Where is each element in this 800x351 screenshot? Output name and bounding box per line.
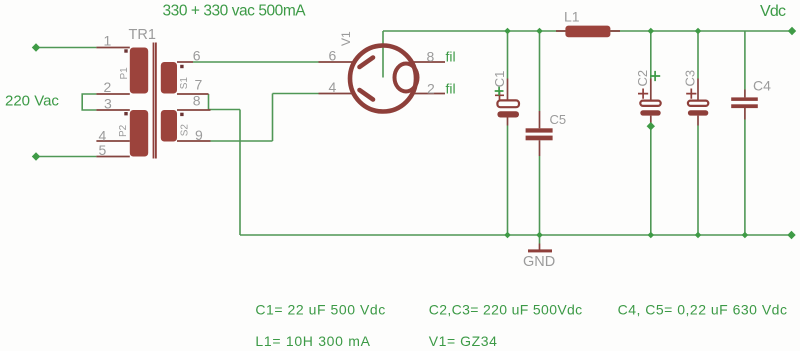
L1 pin stubs	[556, 30, 620, 32]
tube pin 2 stub (fil)	[412, 93, 446, 95]
rectifier tube V1	[319, 31, 456, 112]
junction C3 top	[695, 28, 702, 35]
C1 polarity plus (red)	[495, 91, 504, 100]
wire C2 bottom drop	[650, 126, 652, 236]
C2 plate bottom (filled)	[640, 110, 660, 115]
pin 1 stub	[96, 47, 129, 49]
svg-text:C4: C4	[753, 78, 771, 94]
tube pin 4 stub	[319, 93, 356, 95]
svg-text:V1= GZ34: V1= GZ34	[429, 333, 498, 349]
C3 bottom pin stub	[697, 116, 699, 126]
C1 top pin stub	[507, 79, 509, 101]
wire GND stub	[539, 235, 541, 244]
C1 plate bottom (filled)	[497, 111, 519, 117]
svg-text:V1: V1	[339, 31, 353, 46]
port bottom right	[787, 231, 795, 239]
svg-text:C2: C2	[635, 70, 650, 87]
svg-text:330 + 330 vac 500mA: 330 + 330 vac 500mA	[163, 3, 307, 20]
transformer TR1	[96, 27, 210, 159]
junction C1 top	[504, 28, 511, 35]
wire net pin9 horizontal	[211, 140, 273, 142]
tube anode plate lower	[360, 90, 374, 100]
wire net pin6 to tube anode	[193, 61, 319, 63]
junction below C2	[647, 122, 655, 130]
junction GND	[536, 232, 543, 239]
C4 plate bottom	[731, 104, 758, 108]
pin 8 stub	[177, 109, 211, 111]
wire bottom ground bus	[240, 234, 792, 236]
wire C3 bottom drop	[697, 126, 699, 236]
wire C4 top drop	[744, 31, 746, 90]
port 220Vac bottom	[32, 152, 40, 160]
wire C5 bottom drop	[539, 156, 541, 235]
wire top bus Vdc	[383, 30, 792, 32]
junction C2 bottom	[648, 232, 655, 239]
svg-text:S2: S2	[179, 124, 190, 137]
junction / port diamonds	[32, 27, 796, 239]
wire C3 top drop	[697, 31, 699, 79]
C5 plate bottom	[526, 136, 553, 141]
C2 plate top (hollow)	[640, 101, 660, 106]
svg-text:7: 7	[195, 77, 203, 93]
ground symbol GND	[523, 244, 555, 271]
svg-text:5: 5	[99, 142, 107, 158]
svg-text:fil: fil	[446, 81, 456, 97]
C5 top pin stub	[539, 111, 541, 128]
pin 5 stub	[96, 156, 129, 158]
wire center tap pin8 horizontal	[209, 109, 241, 111]
capacitor C2	[635, 70, 661, 131]
wire tube cathode up	[382, 31, 384, 78]
wire net pin9 to tube anode 4	[273, 93, 319, 95]
winding P2	[130, 110, 148, 157]
tube pin 6 stub	[319, 61, 356, 63]
wire C5 top drop	[539, 31, 541, 111]
tube envelope circle	[350, 46, 416, 112]
svg-text:Vdc: Vdc	[760, 3, 786, 20]
inductor L1	[556, 9, 620, 38]
junction C3 bottom	[695, 232, 702, 239]
svg-text:S1: S1	[179, 77, 190, 90]
svg-text:6: 6	[193, 48, 201, 64]
wire C2 top drop	[650, 31, 652, 79]
polarity dot P1	[124, 49, 127, 52]
svg-text:C3: C3	[683, 70, 698, 87]
svg-text:1: 1	[104, 33, 112, 49]
svg-text:fil: fil	[446, 49, 456, 65]
C3 polarity plus (red)	[686, 89, 696, 99]
wire net 220Vac top (pin1)	[36, 47, 96, 49]
junction C5 top	[536, 28, 543, 35]
polarity dot P2	[124, 112, 127, 115]
svg-text:8: 8	[193, 93, 201, 109]
tube anode plate upper	[360, 58, 374, 68]
C4 bottom pin stub	[744, 108, 746, 120]
svg-text:8: 8	[427, 49, 435, 65]
C2 bottom pin stub	[650, 116, 652, 126]
winding S1	[161, 62, 177, 94]
GND bar	[528, 249, 552, 252]
pin 2 stub	[96, 93, 129, 95]
capacitor C4	[731, 78, 771, 120]
C2 polarity plus (red)	[638, 89, 648, 99]
port Vdc	[788, 27, 796, 35]
svg-text:P2: P2	[118, 124, 129, 137]
pin 9 stub	[177, 140, 211, 142]
wire net pin9 riser	[272, 94, 274, 142]
svg-text:L1: L1	[564, 9, 580, 25]
pin 3 stub	[96, 109, 129, 111]
capacitor C1	[492, 71, 519, 126]
svg-text:P1: P1	[119, 67, 130, 80]
svg-text:L1= 10H 300 mA: L1= 10H 300 mA	[255, 333, 370, 349]
L1 body	[565, 26, 610, 38]
C4 plate top	[731, 97, 758, 101]
wire net 220Vac bottom (pin5)	[36, 156, 96, 158]
svg-text:3: 3	[104, 96, 112, 112]
C3 top pin stub	[697, 79, 699, 101]
port 220Vac top	[32, 43, 40, 51]
C4 top pin stub	[744, 90, 746, 98]
svg-text:2: 2	[104, 79, 112, 95]
wire jumper pins 2-3	[82, 94, 96, 110]
svg-text:2: 2	[427, 81, 435, 97]
wire C1 top drop	[507, 31, 509, 79]
junction C2 top	[648, 28, 655, 35]
C5 bottom pin stub	[539, 140, 541, 156]
C3 plate top (hollow)	[688, 101, 708, 106]
wire center tap vertical to ground bus	[239, 110, 241, 236]
svg-text:220 Vac: 220 Vac	[5, 93, 59, 110]
tube pin 8 stub (fil)	[412, 61, 446, 63]
svg-text:9: 9	[195, 127, 203, 143]
junction C1 bottom	[504, 232, 511, 239]
svg-text:6: 6	[329, 48, 337, 64]
svg-text:GND: GND	[523, 254, 555, 270]
svg-text:C1= 22 uF 500 Vdc: C1= 22 uF 500 Vdc	[255, 302, 385, 318]
C5 plate top	[526, 128, 553, 132]
junction C4 bottom	[742, 232, 749, 239]
C1 plus (green)	[495, 87, 504, 96]
wire C1 bottom drop	[507, 126, 509, 236]
C2 top pin stub	[650, 79, 652, 101]
C2 plus (green)	[650, 71, 660, 81]
capacitor C5	[526, 111, 567, 156]
pin 4 stub	[96, 140, 129, 142]
wire C4 bottom drop	[744, 120, 746, 236]
winding P1	[130, 48, 148, 94]
winding S2	[161, 110, 177, 142]
svg-text:C4, C5= 0,22 uF 630 Vdc: C4, C5= 0,22 uF 630 Vdc	[618, 302, 788, 318]
tube filament circle	[395, 64, 418, 92]
svg-text:4: 4	[329, 79, 337, 95]
C1 bottom pin stub	[507, 118, 509, 126]
pin 6 stub	[177, 61, 193, 63]
GND pin stub	[539, 244, 541, 251]
svg-text:TR1: TR1	[129, 27, 156, 43]
capacitor C3	[683, 70, 709, 126]
core lines	[154, 43, 156, 159]
wire center tap pin7 drop	[208, 94, 210, 110]
polarity dot S2	[180, 113, 183, 116]
svg-text:C2,C3= 220 uF 500Vdc: C2,C3= 220 uF 500Vdc	[429, 302, 583, 318]
svg-text:C1: C1	[492, 71, 507, 88]
C1 plate top (hollow)	[497, 100, 519, 107]
polarity dot S1	[180, 65, 183, 68]
C3 plate bottom (filled)	[688, 110, 708, 115]
pin 7 stub	[177, 93, 209, 95]
svg-text:C5: C5	[550, 112, 567, 127]
